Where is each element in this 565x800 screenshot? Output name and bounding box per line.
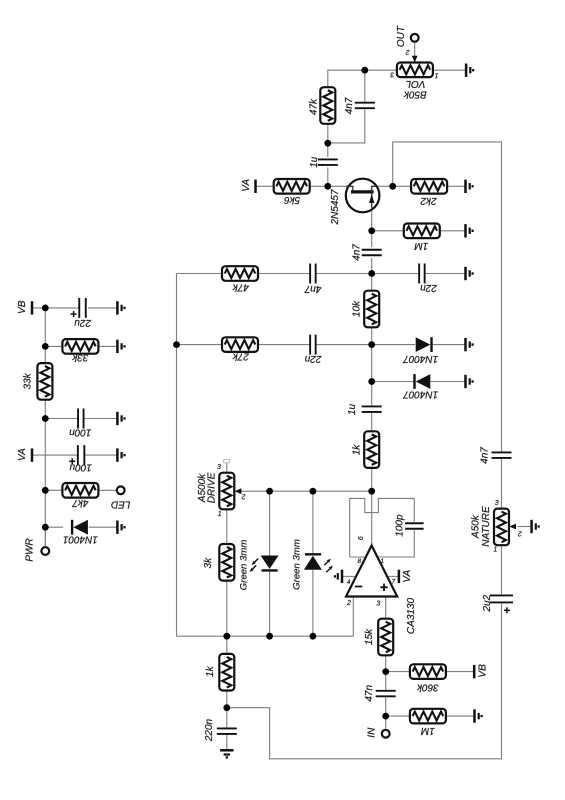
wire 1N4007 b to ground — [430, 381, 465, 383]
resistor 3k — [219, 544, 234, 581]
node 3k-1k bus junction — [223, 633, 230, 640]
plus mark 100u — [69, 458, 75, 464]
ground at 1M bottom — [475, 709, 482, 722]
capacitor 1u (top) — [318, 159, 338, 165]
svg-text:3: 3 — [217, 464, 221, 471]
node 47k row junction — [368, 270, 375, 277]
wire 1u to gate node — [327, 167, 329, 186]
wire 1k b to C 220n — [226, 690, 228, 728]
node 4k7 junction — [42, 487, 49, 494]
wire 15k to 47n node — [385, 655, 387, 690]
svg-text:22n: 22n — [420, 282, 438, 293]
wire 1N4007 to ground — [431, 344, 466, 346]
capacitor 100p — [405, 523, 424, 529]
svg-text:1u: 1u — [309, 156, 320, 168]
resistor 1M (bottom) — [410, 709, 446, 724]
power symbol VB — [31, 301, 34, 314]
wire bus to C 100n — [45, 418, 77, 420]
wire source to 1M node — [371, 209, 373, 248]
svg-text:47k: 47k — [232, 281, 249, 292]
transistor Q1 2N5457 — [346, 179, 380, 213]
svg-text:VB: VB — [477, 664, 488, 678]
plus mark 2u2 — [504, 607, 510, 613]
wire VB power bus vertical — [44, 308, 46, 547]
wire 1M b to ground — [446, 715, 475, 717]
svg-text:1k: 1k — [205, 665, 216, 677]
ground at VOL — [466, 64, 473, 77]
resistor 47k (row) — [222, 266, 258, 281]
wire bus to op-amp pin2 — [177, 597, 354, 637]
resistor 2k2 — [411, 179, 447, 194]
wire NATURE pin1 to C 2u2 — [501, 546, 503, 595]
resistor 15k — [378, 619, 393, 656]
svg-text:33k: 33k — [23, 372, 34, 389]
svg-text:1M: 1M — [420, 725, 435, 736]
power symbol VB at 360k — [473, 665, 476, 678]
node VB-22u junction — [42, 305, 49, 312]
node LED1 bus junction — [266, 633, 273, 640]
terminal OUT pad — [411, 34, 419, 42]
wire 100n to ground — [84, 418, 117, 420]
resistor 27k — [222, 337, 258, 352]
resistor 4k7 — [62, 483, 98, 498]
ground at 22n right — [466, 267, 473, 280]
wire bus to R 33k — [45, 345, 62, 347]
ground at 1N4007 a — [466, 338, 473, 351]
resistor 33k (vertical) — [37, 363, 52, 400]
svg-text:4n7: 4n7 — [344, 97, 355, 114]
wire bus to R 4k7 — [45, 489, 62, 491]
svg-text:1: 1 — [493, 547, 497, 554]
capacitor 22n (right) — [419, 264, 425, 284]
wire 220n to ground — [226, 735, 228, 750]
wire DRIVE wiper row — [242, 490, 372, 492]
node wiper row LED1 — [266, 488, 273, 495]
svg-text:2u2: 2u2 — [482, 594, 493, 612]
svg-text:OUT: OUT — [396, 25, 407, 47]
wire VOL pin1 to ground — [433, 69, 466, 71]
wire NATURE wiper to ground — [518, 526, 532, 528]
svg-text:22n: 22n — [304, 353, 322, 364]
wire VB to C 22u — [32, 307, 79, 309]
node 27k row junction — [368, 341, 375, 348]
ground op-amp pin4 — [335, 570, 342, 583]
svg-text:PWR: PWR — [25, 538, 36, 561]
wire bus to PWR pad — [44, 527, 46, 547]
capacitor 22u (electrolytic) — [79, 298, 86, 318]
svg-text:VB: VB — [17, 300, 28, 314]
wire 1u to R 1k — [371, 413, 373, 432]
wire comp loop pins 8-1 — [350, 498, 415, 557]
node 1N4001 junction — [42, 524, 49, 531]
wire bus to R 27k — [177, 344, 223, 346]
svg-text:4k7: 4k7 — [72, 497, 89, 508]
wire 5k6 to JFET gate — [310, 185, 346, 187]
node op-amp output junction — [368, 488, 375, 495]
ground at 33k — [117, 340, 124, 353]
wire VA to R 5k6 — [256, 185, 274, 187]
ground at 22u — [117, 301, 124, 314]
svg-text:1u: 1u — [347, 404, 358, 416]
ground at 220n — [220, 750, 233, 757]
node LED2 bus junction — [310, 633, 317, 640]
node left bus junction — [173, 341, 180, 348]
capacitor 220n — [217, 728, 237, 734]
terminal LED pad — [117, 486, 125, 494]
wire VOL pin3 to 47k — [328, 70, 397, 88]
svg-text:10k: 10k — [352, 300, 363, 317]
svg-text:8: 8 — [357, 558, 361, 565]
svg-text:47k: 47k — [309, 98, 320, 115]
wire node to D 1N4007 — [372, 344, 415, 346]
resistor 1k (top) — [364, 431, 379, 468]
wire 22n to node — [316, 344, 372, 346]
wire 47n to IN node — [385, 697, 387, 730]
wire op-amp pin4 to ground — [342, 575, 356, 577]
wire 3k to bus — [226, 580, 228, 636]
node wiper row LED2 — [310, 488, 317, 495]
svg-text:1: 1 — [434, 71, 438, 78]
wire node to R 1M b — [386, 715, 411, 717]
svg-text:VA: VA — [241, 179, 252, 192]
wire corner to R 47k — [177, 273, 223, 275]
resistor 10k — [364, 291, 379, 328]
svg-text:Green 3mm: Green 3mm — [238, 540, 249, 591]
svg-text:Green 3mm: Green 3mm — [292, 539, 303, 590]
svg-text:4n7: 4n7 — [480, 447, 491, 464]
wire DRIVE pin1 to R 3k — [226, 509, 228, 544]
wire 33k to ground — [98, 345, 117, 347]
svg-text:4n7: 4n7 — [304, 283, 321, 294]
wire 360k to VB — [446, 671, 474, 673]
wire bus to R 1k b — [226, 636, 228, 654]
ground at 100n — [117, 412, 124, 425]
wire node to D 1N4007 b — [372, 381, 416, 383]
wire drain node to R 2k2 — [377, 185, 412, 187]
wire op-amp pin3 to R 15k — [385, 597, 387, 620]
resistor 5k6 — [274, 179, 310, 194]
svg-text:1M: 1M — [414, 240, 429, 251]
capacitor 2u2 (electrolytic) — [490, 595, 513, 602]
wire 22n to ground — [425, 273, 466, 275]
wire bottom return bus — [227, 604, 502, 759]
potentiometer DRIVE A500k — [219, 473, 234, 510]
svg-text:27k: 27k — [232, 351, 250, 362]
capacitor 100n — [78, 409, 84, 429]
svg-text:B50k: B50k — [403, 89, 427, 100]
wiper arrow NATURE pin2 — [509, 524, 516, 530]
ground at 100u — [117, 448, 124, 461]
wire 4k7 to LED pad — [98, 489, 116, 491]
node 220n junction — [223, 704, 230, 711]
svg-text:3: 3 — [495, 500, 499, 507]
svg-text:VOL: VOL — [405, 78, 425, 89]
svg-text:IN: IN — [366, 727, 377, 738]
wire op-amp pin7 to VA — [387, 575, 399, 577]
LED D1 Green 3mm — [250, 556, 279, 573]
svg-text:1: 1 — [380, 558, 384, 565]
wire node to C 22n — [372, 273, 419, 275]
node 1M b junction — [382, 713, 389, 720]
wire 4n7 to NATURE pin3 — [501, 459, 503, 509]
LED D2 Green 3mm — [304, 554, 333, 572]
ground at 1N4007 b — [466, 375, 473, 388]
wire 2k2 to ground — [447, 185, 466, 187]
ground at 1M top — [466, 224, 473, 237]
svg-text:2: 2 — [242, 492, 247, 499]
resistor 1M (top) — [404, 224, 440, 239]
capacitor 4n7 (source) — [362, 250, 382, 256]
svg-text:2N5457: 2N5457 — [330, 189, 341, 225]
potentiometer VOL B50k — [397, 63, 433, 78]
op-amp U1 CA3130 — [346, 546, 397, 597]
capacitor 47n — [376, 691, 396, 697]
wire node to R 1M — [372, 230, 403, 232]
node 100n junction — [42, 415, 49, 422]
pin mark DRIVE pin3 — [224, 460, 230, 463]
wire node down — [371, 345, 373, 382]
wire 22u to ground — [88, 307, 117, 309]
wire LED2 anode to bus — [312, 570, 314, 637]
terminal IN pad — [382, 730, 390, 738]
potentiometer NATURE A50k — [494, 509, 509, 546]
wire 1N4001 to ground — [89, 526, 118, 528]
wire LED1 cathode to bus — [269, 570, 271, 636]
ground at NATURE wiper — [532, 520, 539, 533]
svg-text:22u: 22u — [74, 317, 92, 328]
ground at 2k2 — [466, 180, 473, 193]
svg-text:1k: 1k — [352, 444, 363, 456]
plus mark 22u — [71, 311, 77, 317]
svg-text:1: 1 — [218, 511, 222, 518]
wire left feedback bus — [176, 274, 178, 637]
node 47k-4n7 junction — [324, 140, 331, 147]
svg-text:220n: 220n — [204, 718, 215, 742]
terminal PWR pad — [41, 547, 49, 555]
wire node to C 1u — [371, 382, 373, 406]
wire 4n7 to 10k — [371, 258, 373, 291]
node VOL pin3 junction — [361, 67, 368, 74]
svg-text:NATURE: NATURE — [481, 506, 492, 547]
node diode b junction — [368, 378, 375, 385]
wire 1M to ground — [441, 230, 466, 232]
wiper arrow DRIVE pin2 — [235, 488, 242, 494]
svg-text:100u: 100u — [69, 462, 92, 473]
svg-text:360k: 360k — [416, 682, 439, 693]
capacitor 100u (electrolytic) — [78, 445, 85, 465]
power symbol VA — [31, 448, 34, 461]
resistor 47k (vertical) — [320, 87, 335, 124]
svg-text:100p: 100p — [394, 514, 405, 537]
svg-text:3k: 3k — [203, 557, 214, 569]
svg-text:CA3130: CA3130 — [406, 597, 417, 634]
wire 1k to op-amp output — [371, 468, 373, 546]
svg-text:2: 2 — [346, 600, 351, 607]
node JFET gate — [324, 183, 331, 190]
node drain junction — [389, 183, 396, 190]
diode 1N4001 — [72, 520, 88, 535]
wire 10k to 27k node — [371, 327, 373, 350]
capacitor 4n7 (right) — [492, 452, 512, 458]
svg-text:33k: 33k — [71, 351, 88, 362]
wire drain to nature branch — [393, 142, 502, 452]
wire 100u to ground — [84, 454, 117, 456]
capacitor 22n (row) — [310, 335, 316, 355]
wire to LED1 anode — [269, 491, 271, 555]
svg-text:VA: VA — [402, 569, 413, 582]
wire node to C 4n7 top — [364, 70, 366, 102]
node 360k junction — [382, 668, 389, 675]
wire 4n7 to 47k node — [328, 109, 365, 143]
resistor 1k (bottom) — [219, 654, 234, 691]
wire 47k to C 4n7 — [258, 273, 310, 275]
svg-text:15k: 15k — [364, 628, 375, 645]
svg-text:100n: 100n — [69, 427, 92, 438]
svg-text:47n: 47n — [364, 685, 375, 702]
svg-text:3: 3 — [390, 71, 394, 78]
power symbol VA op-amp — [398, 570, 401, 583]
svg-text:DRIVE: DRIVE — [206, 472, 217, 503]
wire 4n7 to node — [316, 273, 372, 275]
ground at 1N4001 — [117, 521, 124, 534]
svg-text:2: 2 — [518, 529, 523, 536]
svg-text:LED: LED — [111, 499, 130, 510]
resistor 360k — [410, 664, 446, 679]
capacitor 4n7 (top) — [355, 103, 375, 109]
wire 47k bottom to C 1u — [327, 123, 329, 157]
wiper arrow VOL pin2 — [412, 56, 418, 63]
wire bus to D 1N4001 — [45, 526, 63, 528]
wire 27k to C 22n — [258, 344, 310, 346]
svg-text:1N4007: 1N4007 — [403, 389, 438, 400]
svg-text:2k2: 2k2 — [420, 195, 438, 206]
svg-text:3: 3 — [376, 601, 380, 608]
resistor 33k (horizontal) — [62, 339, 98, 354]
wire OUT to VOL wiper — [414, 42, 416, 62]
svg-text:1N4001: 1N4001 — [63, 534, 98, 545]
capacitor 1u (mid) — [362, 406, 382, 412]
node source junction — [368, 227, 375, 234]
wire VA rail — [32, 454, 78, 456]
power symbol VA at 5k6 — [254, 180, 257, 193]
capacitor 4n7 (row) — [310, 264, 316, 284]
svg-text:2: 2 — [406, 48, 411, 55]
svg-text:1N4007: 1N4007 — [403, 353, 438, 364]
svg-text:VA: VA — [17, 448, 28, 461]
svg-text:4n7: 4n7 — [352, 244, 363, 261]
wire to LED2 cathode — [312, 491, 314, 554]
node 33k junction — [42, 343, 49, 350]
diode 1N4007 (a) — [416, 337, 432, 352]
diode 1N4007 (b) — [415, 374, 431, 389]
wire DRIVE pin3 stub — [226, 463, 228, 473]
svg-text:6: 6 — [358, 536, 365, 540]
wire node to R 360k — [386, 671, 411, 673]
svg-text:5k6: 5k6 — [284, 194, 301, 205]
